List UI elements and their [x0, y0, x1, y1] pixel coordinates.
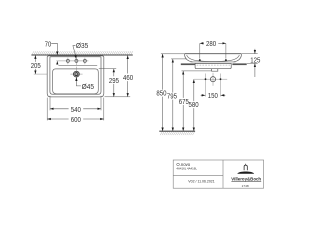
dim 600: [47, 98, 104, 121]
svg-text:460: 460: [123, 73, 133, 82]
apron outline: [195, 63, 231, 68]
table border: [173, 160, 263, 188]
mounting bar right (dark): [232, 63, 246, 65]
dim 540: [50, 96, 101, 111]
svg-text:150: 150: [208, 91, 218, 100]
trap horizontal centerline: [194, 78, 227, 80]
tap hole circles: [66, 59, 69, 62]
fixing hole dots: [199, 59, 201, 61]
wall hatch: [32, 51, 133, 55]
hidden dashed line in apron: [197, 64, 230, 66]
basin rim inner line: [50, 57, 101, 95]
svg-text:70: 70: [45, 40, 51, 49]
dim 675: [182, 70, 212, 72]
dim 280: [200, 42, 204, 44]
wordmark underline: [231, 180, 261, 182]
svg-text:205: 205: [31, 61, 41, 70]
tap hole ticks: [68, 58, 85, 66]
svg-text:Ø45: Ø45: [82, 82, 94, 91]
trap circle: [210, 77, 215, 82]
drain outlet stub: [212, 69, 218, 72]
dim label D35 leader: [73, 46, 76, 55]
svg-text:540: 540: [71, 105, 81, 114]
tap holes centerline: [56, 60, 88, 62]
table horizontal divider: [173, 174, 223, 176]
svg-text:Ø35: Ø35: [76, 41, 88, 50]
underside line: [191, 61, 236, 63]
inner bowl outline: [53, 69, 99, 94]
svg-text:125: 125: [250, 56, 260, 65]
svg-text:280: 280: [206, 39, 216, 48]
dim 295: [99, 68, 116, 70]
trap side dots: [205, 78, 207, 80]
dim 205: [34, 55, 36, 62]
floor hatch: [160, 131, 195, 135]
dim 125 extension lines: [242, 54, 258, 64]
svg-text:580: 580: [189, 100, 199, 109]
svg-text:795: 795: [167, 92, 177, 101]
tap deck front edge: [58, 64, 97, 66]
svg-text:295: 295: [109, 76, 119, 85]
rim top line: [185, 53, 242, 55]
dim 460: [105, 96, 131, 98]
svg-text:850: 850: [156, 89, 166, 98]
wall line: [31, 54, 132, 56]
trap vertical centerlines: [206, 73, 221, 97]
dim 580: [193, 79, 195, 101]
left side profile: [185, 54, 193, 62]
dim 125: [254, 49, 256, 54]
table vertical divider: [222, 160, 224, 188]
dim 280 extension lines: [200, 44, 226, 59]
dim 850: [161, 53, 185, 55]
svg-text:1748: 1748: [242, 184, 249, 188]
drain circles: [74, 71, 80, 77]
V&B tower icon: [244, 164, 247, 171]
dim 70 leader: [51, 43, 57, 52]
bowl dish curve: [187, 55, 240, 61]
mounting bar left (dark): [181, 63, 195, 65]
dim 795: [171, 58, 186, 60]
right side profile: [234, 54, 242, 62]
drain centerlines: [34, 73, 83, 75]
svg-text:675: 675: [179, 97, 189, 106]
dim label D45 leader: [76, 81, 81, 86]
dim 150: [201, 94, 206, 96]
svg-text:600: 600: [71, 115, 81, 124]
svg-text:V02 / 11.06.2021: V02 / 11.06.2021: [188, 180, 214, 184]
basin outer outline: [47, 56, 104, 97]
svg-text:4A416L 4A416L: 4A416L 4A416L: [176, 167, 197, 171]
floor line: [159, 130, 195, 132]
